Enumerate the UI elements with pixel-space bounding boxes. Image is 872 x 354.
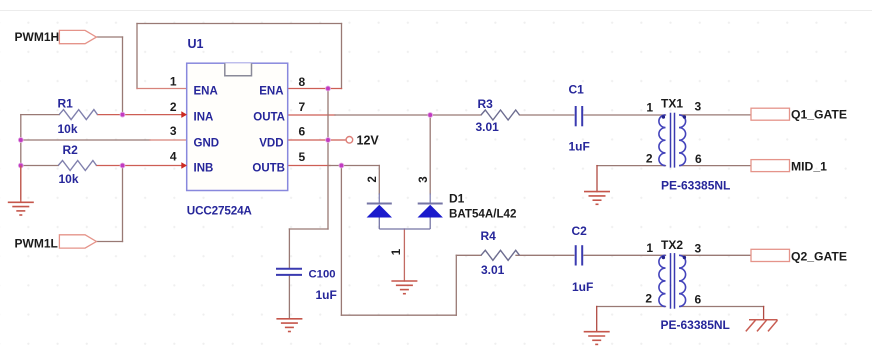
- wire PWM1L tap horizontal: [96, 241, 122, 243]
- port PWM1L: [15, 235, 97, 251]
- wire D1 pin2 vertical: [378, 166, 380, 195]
- svg-text:3.01: 3.01: [481, 263, 505, 277]
- wire GND row: [21, 139, 150, 141]
- junction node OUTB branch: [339, 163, 344, 168]
- capacitor C2: [572, 224, 594, 294]
- wire VDD pin6 stub: [288, 139, 346, 141]
- svg-text:GND: GND: [194, 138, 220, 150]
- svg-text:INB: INB: [194, 163, 214, 175]
- svg-text:3: 3: [170, 124, 177, 138]
- svg-text:PE-63385NL: PE-63385NL: [661, 318, 730, 332]
- wire OUTA row to R3: [335, 114, 481, 116]
- wire C2 to TX2 pin1: [584, 254, 666, 256]
- svg-text:4: 4: [170, 150, 177, 164]
- svg-text:7: 7: [299, 100, 306, 114]
- svg-text:3.01: 3.01: [476, 120, 500, 134]
- svg-text:MID_1: MID_1: [791, 160, 827, 174]
- wire R4 left: [456, 254, 481, 256]
- port Q1_GATE: [751, 108, 847, 122]
- transformer TX1: [646, 97, 731, 193]
- junction node R2 left: [18, 163, 23, 168]
- power port 12V: [346, 134, 379, 148]
- svg-text:Q2_GATE: Q2_GATE: [791, 249, 847, 263]
- svg-text:6: 6: [695, 152, 702, 166]
- svg-text:2: 2: [170, 100, 177, 114]
- svg-text:R2: R2: [63, 143, 79, 157]
- svg-text:2: 2: [646, 152, 653, 166]
- svg-text:BAT54A/L42: BAT54A/L42: [449, 208, 516, 221]
- svg-text:PWM1L: PWM1L: [15, 236, 58, 250]
- svg-text:2: 2: [367, 176, 379, 182]
- wire OUTB down vertical: [340, 166, 342, 316]
- svg-text:5: 5: [299, 150, 306, 164]
- pin 2 arrowhead: [181, 111, 187, 118]
- wire R2 right to pin4: [97, 165, 187, 167]
- wire PWM1L tap vertical to INB node: [122, 166, 124, 242]
- wire TX1 pin6 to MID_1: [681, 165, 751, 167]
- junction node INA/PWM1H: [120, 112, 125, 117]
- wire PWM1H tap horizontal: [96, 36, 122, 38]
- wire C1 to TX1 pin1: [584, 114, 666, 116]
- svg-text:D1: D1: [449, 192, 465, 206]
- wire TX2 pin2 ground drop: [596, 307, 598, 332]
- svg-text:1uF: 1uF: [316, 288, 337, 302]
- ground left rail: [8, 166, 34, 216]
- svg-text:VDD: VDD: [259, 138, 283, 150]
- svg-text:OUTA: OUTA: [253, 112, 285, 124]
- svg-text:R3: R3: [478, 97, 494, 111]
- wire left rail vertical: [20, 115, 22, 199]
- svg-text:1: 1: [391, 248, 403, 255]
- op-amp U1 (driver UCC27524A): [170, 37, 306, 218]
- wire bottom rail: [341, 314, 456, 316]
- wire R1 right to pin2: [98, 114, 187, 116]
- capacitor C100: [276, 269, 337, 303]
- wire OUTA pin7 stub: [288, 114, 335, 116]
- wire C100 bottom stem: [288, 276, 290, 319]
- wire TX1 pin3 to Q1_GATE: [681, 114, 751, 116]
- svg-text:1: 1: [646, 101, 653, 115]
- resistor R2: [58, 143, 96, 186]
- ground D1 pin1: [391, 281, 417, 294]
- ground C100: [276, 319, 302, 332]
- wire TX2 pin2: [597, 306, 666, 308]
- svg-text:1uF: 1uF: [572, 280, 593, 294]
- svg-text:UCC27524A: UCC27524A: [187, 205, 253, 218]
- svg-text:3: 3: [695, 242, 702, 256]
- ground TX2 pin2: [584, 332, 610, 345]
- svg-text:3: 3: [418, 176, 430, 182]
- resistor R1: [58, 97, 98, 137]
- capacitor C1: [569, 83, 590, 154]
- svg-text:PE-63385NL: PE-63385NL: [661, 179, 730, 193]
- svg-text:1uF: 1uF: [569, 140, 590, 154]
- svg-text:2: 2: [645, 292, 652, 306]
- port Q2_GATE: [751, 249, 847, 263]
- wire TX1 pin2: [597, 165, 666, 167]
- junction node ENA pin8: [326, 86, 331, 91]
- wire top loop right vertical: [341, 24, 343, 89]
- resistor R3: [476, 97, 520, 134]
- wire R3 to C1: [520, 114, 574, 116]
- svg-text:U1: U1: [188, 37, 204, 51]
- resistor R4: [481, 229, 520, 277]
- wire R2 left: [21, 165, 58, 167]
- svg-text:TX1: TX1: [661, 97, 683, 111]
- svg-text:1: 1: [646, 241, 653, 255]
- svg-text:R4: R4: [481, 229, 497, 243]
- svg-text:1: 1: [170, 75, 177, 89]
- faint top rule: [0, 10, 872, 12]
- wire D1 pin1 stem: [403, 229, 405, 281]
- junction node VDD: [326, 138, 331, 143]
- wire OUTB row to D1 pin2: [330, 165, 379, 167]
- wire TX1 pin2 ground drop: [596, 166, 598, 192]
- wire C100 top stem: [288, 229, 290, 268]
- svg-text:ENA: ENA: [259, 86, 283, 98]
- svg-text:R1: R1: [58, 97, 74, 111]
- wire OUTB pin5 stub: [288, 165, 330, 167]
- wire pin8 ENA stub: [288, 88, 342, 90]
- wire C100 branch horizontal: [289, 228, 328, 230]
- svg-text:12V: 12V: [357, 134, 380, 148]
- transformer TX2: [645, 238, 730, 332]
- wire R4 to C2: [516, 254, 574, 256]
- svg-text:C100: C100: [309, 269, 336, 281]
- wire top loop horizontal: [137, 23, 342, 25]
- svg-text:C2: C2: [572, 224, 588, 238]
- svg-text:Q1_GATE: Q1_GATE: [791, 108, 847, 122]
- svg-text:6: 6: [299, 125, 306, 139]
- svg-text:ENA: ENA: [194, 86, 218, 98]
- earth ground TX2 pin6: [746, 320, 778, 332]
- svg-text:8: 8: [299, 75, 306, 89]
- wire GND pin3 stub: [150, 139, 187, 141]
- wire ENA/VDD vertical: [327, 89, 329, 230]
- port PWM1H: [15, 30, 97, 44]
- svg-text:TX2: TX2: [661, 238, 683, 252]
- svg-text:INA: INA: [194, 112, 214, 124]
- ground TX1 pin2: [584, 192, 610, 205]
- svg-text:10k: 10k: [58, 122, 78, 136]
- wire D1 pin3 vertical: [429, 115, 431, 194]
- svg-text:6: 6: [695, 293, 702, 307]
- wire pin1 ENA stub: [137, 88, 187, 90]
- svg-text:10k: 10k: [59, 172, 79, 186]
- junction node INB/PWM1L: [120, 163, 125, 168]
- junction node GND row left: [18, 138, 23, 143]
- pin 4 arrowhead: [181, 162, 187, 169]
- wire PWM1H tap vertical to INA node: [122, 37, 124, 115]
- diode D1 (dual schottky BAT54A/L42): [367, 176, 517, 255]
- wire riser to R4: [455, 255, 457, 315]
- svg-text:C1: C1: [569, 83, 585, 97]
- svg-text:3: 3: [695, 100, 702, 114]
- wire top loop left vertical: [136, 24, 138, 89]
- junction node OUTA branch: [428, 113, 433, 118]
- port MID_1: [751, 160, 827, 174]
- wire TX2 pin3 to Q2_GATE: [681, 254, 751, 256]
- svg-text:PWM1H: PWM1H: [15, 30, 60, 44]
- wire TX2 pin6 earth drop: [763, 307, 765, 320]
- svg-text:OUTB: OUTB: [252, 163, 285, 175]
- wire R1 left: [21, 114, 59, 116]
- wire TX2 pin6: [681, 306, 764, 308]
